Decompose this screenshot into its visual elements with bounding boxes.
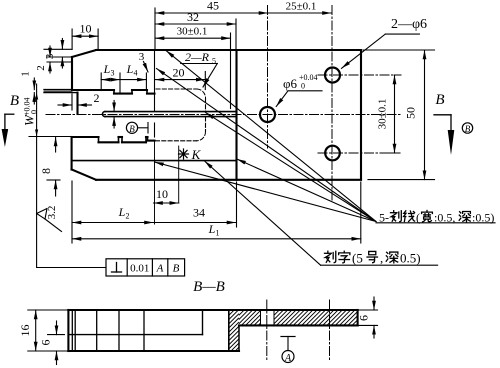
svg-text:3: 3 — [111, 69, 115, 78]
svg-text:0.01: 0.01 — [130, 263, 149, 275]
svg-text:B: B — [129, 124, 135, 134]
svg-text:0: 0 — [301, 82, 305, 91]
svg-text:K: K — [191, 147, 202, 162]
svg-text:2: 2 — [94, 91, 100, 105]
svg-text:B: B — [173, 263, 180, 275]
svg-text:,: , — [380, 251, 383, 266]
svg-text:A: A — [284, 353, 292, 364]
svg-text:2: 2 — [35, 65, 47, 71]
svg-text::0.5): :0.5) — [472, 211, 494, 225]
svg-text:B—B: B—B — [193, 279, 225, 295]
svg-text:4: 4 — [134, 69, 138, 78]
svg-text:(5: (5 — [352, 251, 363, 266]
svg-text:B: B — [435, 92, 444, 108]
svg-text:1: 1 — [20, 71, 32, 77]
svg-text:50: 50 — [404, 107, 418, 119]
svg-text:20: 20 — [173, 66, 185, 80]
svg-text:B: B — [465, 124, 471, 134]
svg-text:L: L — [103, 62, 111, 76]
svg-text:6: 6 — [357, 315, 371, 321]
svg-text:30±0.1: 30±0.1 — [177, 26, 208, 38]
svg-text::0.5,: :0.5, — [434, 211, 455, 225]
svg-text:34: 34 — [193, 206, 205, 220]
svg-text:(: ( — [416, 211, 420, 225]
svg-text:0: 0 — [30, 110, 39, 114]
svg-text:10: 10 — [156, 187, 168, 201]
svg-text:L: L — [118, 205, 126, 219]
svg-text:L: L — [208, 222, 216, 236]
svg-text:φ6: φ6 — [283, 76, 298, 91]
svg-text:45: 45 — [207, 0, 219, 13]
svg-text:3.2: 3.2 — [46, 206, 58, 220]
svg-text:2—R: 2—R — [185, 50, 210, 64]
svg-text:32: 32 — [187, 10, 199, 24]
svg-text:30±0.1: 30±0.1 — [377, 99, 389, 130]
svg-text:25±0.1: 25±0.1 — [286, 1, 317, 13]
svg-text:5: 5 — [212, 57, 216, 66]
svg-text:10: 10 — [80, 22, 92, 36]
svg-text:16: 16 — [18, 325, 32, 337]
svg-text:6: 6 — [39, 340, 53, 346]
svg-text:B: B — [10, 93, 19, 109]
svg-text:A: A — [156, 263, 164, 275]
svg-text:8: 8 — [39, 168, 53, 174]
svg-text:5-: 5- — [379, 211, 389, 225]
svg-text:2—φ6: 2—φ6 — [391, 17, 427, 32]
svg-text:L: L — [126, 62, 134, 76]
svg-text:2: 2 — [126, 212, 130, 221]
svg-text:1: 1 — [216, 229, 220, 238]
svg-text:0.5): 0.5) — [400, 251, 421, 266]
